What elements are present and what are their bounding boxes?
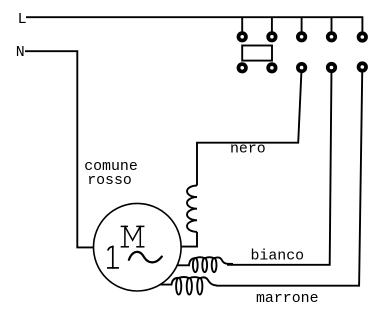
svg-text:L: L bbox=[18, 12, 27, 28]
terminal 3 bottom bbox=[296, 62, 307, 73]
svg-text:rosso: rosso bbox=[87, 173, 132, 189]
terminal 5 bottom bbox=[357, 61, 368, 72]
wire drop to terminal 4 top bbox=[331, 17, 333, 37]
svg-text:bianco: bianco bbox=[251, 249, 305, 265]
terminal 4 bottom bbox=[326, 62, 337, 73]
svg-text:N: N bbox=[16, 45, 25, 61]
wire drop to terminal 1 top bbox=[241, 17, 243, 37]
motor letter M bbox=[121, 226, 143, 246]
terminal 2 top bbox=[266, 31, 277, 42]
motor AC sine symbol bbox=[129, 252, 162, 262]
wire drop to terminal 3 top bbox=[301, 17, 303, 37]
terminal 3 top bbox=[296, 31, 307, 42]
wire terminal 4 to bianco line bbox=[227, 68, 332, 265]
svg-text:marrone: marrone bbox=[256, 291, 319, 307]
inductor aux winding (marrone) bbox=[160, 277, 217, 295]
terminal 1 bottom bbox=[237, 62, 248, 73]
wire terminal 3 to nero line bbox=[197, 68, 302, 186]
terminal 1 top bbox=[237, 31, 248, 42]
terminal 4 top bbox=[326, 31, 337, 42]
jumper link between terminals 1-2 bbox=[242, 46, 272, 61]
svg-text:nero: nero bbox=[230, 142, 266, 158]
terminal 2 bottom bbox=[266, 62, 277, 73]
wire drop to terminal 2 top bbox=[271, 17, 273, 37]
motor M1 body bbox=[94, 203, 182, 291]
wire winding bottom to motor bbox=[180, 232, 197, 247]
motor numeral 1 bbox=[108, 247, 118, 268]
inductor aux winding (bianco) bbox=[177, 257, 233, 272]
wire N to motor common bbox=[25, 51, 94, 247]
terminal 5 top bbox=[357, 31, 368, 42]
wire terminal 5 to marrone line bbox=[216, 68, 362, 286]
wire L bus bbox=[26, 17, 362, 37]
inductor main winding (nero) bbox=[187, 186, 197, 232]
